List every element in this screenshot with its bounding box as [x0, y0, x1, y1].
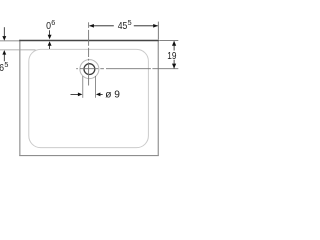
dimension 0.6: lower up arrowhead and stub — [48, 41, 52, 46]
dimension 6.5: upper extension line — [0, 40, 19, 42]
dimension 6.5: lower extension line — [0, 49, 36, 51]
dimension 45.5: label text — [118, 18, 132, 32]
dimension 45.5: right arrowhead — [153, 24, 158, 28]
dimension 19: up arrowhead — [172, 41, 176, 46]
dimension 19: top extension line — [159, 40, 178, 42]
dimension 45.5: right extension line — [157, 22, 159, 40]
svg-text:5: 5 — [128, 18, 132, 27]
svg-text:19: 19 — [167, 51, 176, 62]
dimension 6.5: upper stub and down arrowhead — [3, 27, 5, 36]
dimension dia 9: left tail and right-pointing arrowhead — [71, 93, 79, 95]
dimension 19: vertical line segments — [173, 41, 175, 68]
tray top edge thick line — [19, 40, 159, 42]
svg-text:5: 5 — [4, 60, 8, 69]
dimension 6.5: label text — [0, 60, 8, 74]
svg-text:ø 9: ø 9 — [105, 89, 120, 100]
dimension 0.6: upper stub and down arrowhead — [49, 30, 51, 35]
dimension dia 9: right extension line — [95, 76, 97, 98]
dimension dia 9: left extension line — [82, 76, 84, 98]
drain centerline extension to 19-dimension — [106, 68, 178, 70]
dimension 45.5: line — [89, 25, 157, 27]
svg-text:45: 45 — [118, 21, 128, 32]
dimension 0.6: label text — [46, 18, 55, 32]
svg-text:6: 6 — [51, 18, 55, 27]
drain horizontal centerline — [76, 68, 104, 70]
inner basin rounded rectangle — [29, 49, 149, 147]
dimension 19: down arrowhead — [172, 64, 176, 69]
drain outer circle — [80, 60, 99, 79]
drain vertical centerline — [88, 22, 90, 85]
dimension 45.5: left arrowhead — [89, 24, 94, 28]
drain inner circle — [84, 64, 95, 75]
tray outer rectangle sides — [19, 40, 159, 156]
dimension 6.5: lower up arrowhead and stub — [2, 50, 6, 55]
dimension dia 9: right tail and left-pointing arrowhead — [96, 93, 101, 97]
